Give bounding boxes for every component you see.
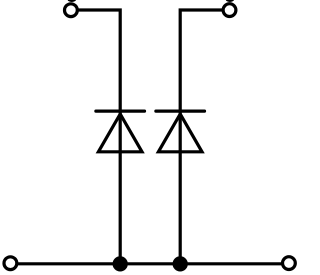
wire (terminal 2 to right branch, horizontal then down) (180, 10, 223, 264)
terminal 4 (bottom-right clamp point) (283, 257, 296, 270)
terminal 2 (top-right clamp point) (223, 4, 236, 17)
terminal 1 (top-left clamp point) (65, 4, 78, 17)
diode D1 cathode bar (96, 109, 145, 112)
terminal 3 (bottom-left clamp point) (4, 257, 17, 270)
junction dot (left branch to bottom bus) (113, 256, 128, 271)
diode D2 anode triangle (158, 114, 202, 152)
node stub (top edge, above terminal 1) (68, 0, 76, 2)
wire (terminal 1 to left branch, horizontal then down) (77, 10, 121, 264)
diode D1 anode triangle (98, 114, 142, 152)
node stub (top edge, above terminal 2) (226, 0, 234, 2)
diode D2 cathode bar (156, 109, 205, 112)
wire (bottom bus, terminal 3 to terminal 4) (17, 262, 284, 265)
junction dot (right branch to bottom bus) (173, 256, 188, 271)
